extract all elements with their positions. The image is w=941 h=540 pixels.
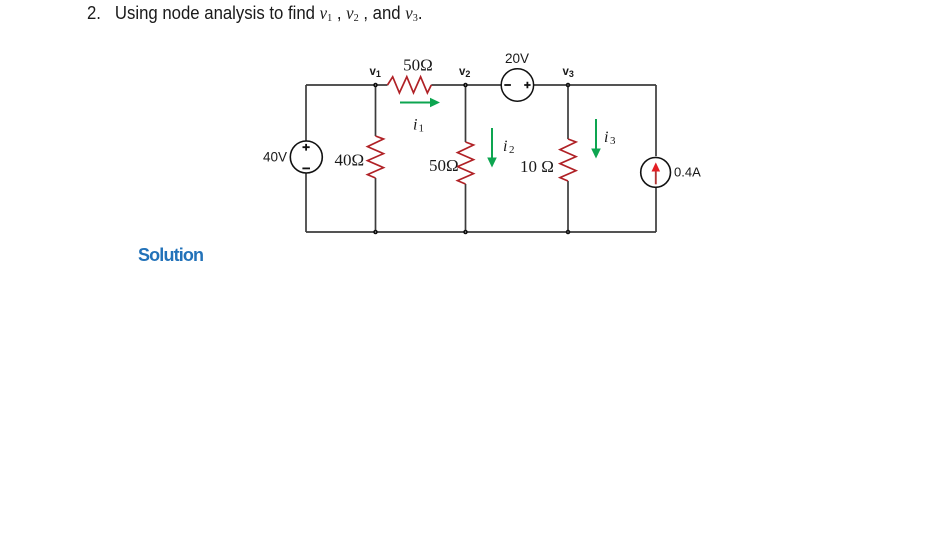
bottom node junction under v2 [463, 230, 468, 235]
current arrow i3 [595, 119, 597, 149]
svg-text:40Ω: 40Ω [335, 151, 365, 170]
V2 minus sign [504, 84, 511, 86]
current source I1 0.4A circle [641, 158, 671, 188]
wire right vertical below 0.4A source [655, 188, 657, 232]
svg-text:i: i [413, 117, 417, 134]
wire between 20V source and right corner [534, 84, 656, 86]
resistor R3 50ohm vertical [458, 142, 474, 184]
resistor R1 50ohm horizontal [388, 77, 432, 93]
problem title [87, 3, 422, 24]
current arrow i1 [400, 102, 431, 104]
svg-text:0.4A: 0.4A [674, 164, 701, 179]
wire v2 column below 50ohm [465, 184, 467, 232]
V2 plus sign [524, 82, 530, 89]
wire left vertical below 40V source [305, 174, 307, 233]
wire v1 column above 40ohm [375, 85, 377, 136]
Solution heading [138, 245, 203, 266]
wire left vertical above 40V source [305, 85, 307, 141]
svg-text:40V: 40V [263, 150, 287, 165]
svg-text:2: 2 [509, 144, 515, 156]
wire v1 column below 40ohm [375, 178, 377, 232]
svg-text:v1: v1 [370, 66, 381, 79]
svg-text:50Ω: 50Ω [429, 156, 459, 175]
wire right vertical above 0.4A source [655, 85, 657, 156]
voltage source V1 40V circle [290, 141, 322, 173]
resistor R4 10ohm vertical [560, 139, 576, 181]
wire v2 column above 50ohm [465, 85, 467, 142]
current arrow i2 [491, 128, 493, 158]
node v3 dot [566, 83, 571, 88]
resistor R2 40ohm vertical [368, 136, 384, 178]
V1 minus sign [302, 167, 310, 169]
wire v3 column below 10ohm [567, 181, 569, 232]
svg-text:v2: v2 [459, 66, 470, 79]
V1 plus sign [303, 144, 310, 151]
svg-text:20V: 20V [505, 51, 529, 66]
voltage source V2 20V circle [501, 69, 533, 101]
wire v3 column above 10ohm [567, 85, 569, 139]
svg-text:10 Ω: 10 Ω [520, 157, 554, 176]
node v2 dot [463, 83, 468, 88]
bottom node junction under v3 [566, 230, 571, 235]
svg-text:i: i [503, 138, 507, 155]
node v1 dot [373, 83, 378, 88]
wire top-left segment [306, 84, 388, 86]
svg-text:i: i [604, 129, 608, 146]
svg-text:v3: v3 [563, 66, 574, 79]
bottom node junction under v1 [373, 230, 378, 235]
wire bottom [306, 231, 656, 233]
svg-text:3: 3 [610, 135, 616, 147]
wire between 50ohm resistor and node v2 [431, 84, 501, 86]
svg-text:1: 1 [419, 123, 425, 135]
I1 red arrow [655, 171, 657, 185]
svg-text:50Ω: 50Ω [403, 56, 433, 75]
